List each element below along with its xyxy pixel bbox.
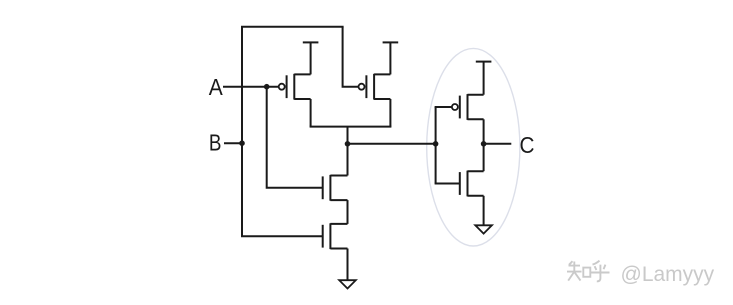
svg-text:A: A bbox=[209, 74, 224, 100]
wire inverter input vertical bbox=[435, 107, 437, 184]
wire B vertical riser bbox=[241, 27, 243, 236]
svg-text:@Lamyyy: @Lamyyy bbox=[621, 263, 715, 286]
node inverter output bbox=[481, 141, 487, 147]
svg-text:C: C bbox=[520, 132, 535, 158]
svg-text:B: B bbox=[209, 129, 222, 155]
pmos Q5 (inverter) bbox=[452, 94, 484, 120]
wire output node down to M3 drain bbox=[347, 144, 349, 176]
wire B riser to M4 gate bbox=[241, 235, 323, 237]
vdd stub Q1 bbox=[303, 42, 319, 74]
node NAND output bbox=[345, 141, 351, 147]
nmos M6 (inverter) bbox=[460, 171, 484, 197]
wire rail down to output node bbox=[347, 127, 349, 144]
vdd stub Q2 bbox=[383, 42, 399, 74]
wire to M6 gate bbox=[435, 183, 460, 185]
nmos M4 (input B) bbox=[323, 223, 348, 249]
wire top span bbox=[241, 26, 344, 28]
wire M6 drain to output node bbox=[483, 144, 485, 171]
wire Q5 drain to output node bbox=[483, 119, 485, 144]
wire M3 source to M4 drain bbox=[347, 200, 349, 224]
ground inverter bbox=[475, 196, 492, 234]
nmos M3 (input A) bbox=[323, 175, 348, 201]
wire right riser to Q2 gate bbox=[343, 27, 359, 87]
vdd stub Q5 bbox=[476, 62, 492, 95]
ellipse highlight around inverter bbox=[427, 48, 520, 246]
wire pmos drain rail bbox=[310, 126, 392, 128]
wire B input stub bbox=[224, 142, 242, 144]
wire to Q5 gate bbox=[435, 106, 452, 108]
wire inverter output to C bbox=[484, 143, 512, 145]
node A junction bbox=[264, 84, 270, 90]
pmos Q1 (input A) bbox=[279, 74, 311, 100]
wire A input bbox=[223, 86, 279, 88]
pmos Q2 (input B) bbox=[359, 74, 391, 100]
node inverter input bbox=[433, 141, 439, 147]
wire Q2 drain to rail bbox=[389, 99, 391, 127]
wire Q1 drain to rail bbox=[310, 99, 312, 127]
node B junction bbox=[239, 140, 245, 146]
watermark zhihu logo glyphs bbox=[567, 261, 610, 282]
ground main bbox=[339, 249, 356, 289]
wire NAND output to inverter bbox=[348, 143, 436, 145]
wire A to M3 gate bbox=[267, 87, 323, 188]
